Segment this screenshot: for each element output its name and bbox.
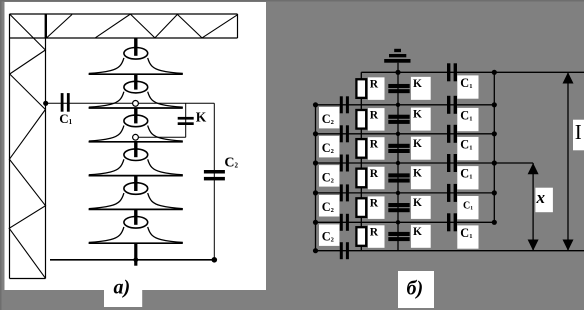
svg-text:R: R bbox=[370, 79, 379, 91]
svg-text:R: R bbox=[370, 198, 379, 210]
svg-text:R: R bbox=[370, 109, 379, 121]
svg-text:R: R bbox=[370, 139, 379, 151]
svg-text:K: K bbox=[413, 78, 422, 90]
svg-text:I: I bbox=[575, 120, 582, 144]
svg-text:а): а) bbox=[114, 277, 131, 299]
svg-text:K: K bbox=[413, 197, 422, 209]
svg-text:K: K bbox=[413, 167, 422, 179]
svg-text:K: K bbox=[196, 110, 207, 125]
svg-text:K: K bbox=[413, 226, 422, 238]
svg-text:K: K bbox=[413, 109, 422, 121]
svg-text:R: R bbox=[370, 227, 379, 239]
svg-text:K: K bbox=[413, 138, 422, 150]
svg-text:б): б) bbox=[407, 278, 424, 300]
svg-text:R: R bbox=[370, 168, 379, 180]
svg-text:x: x bbox=[536, 188, 546, 207]
